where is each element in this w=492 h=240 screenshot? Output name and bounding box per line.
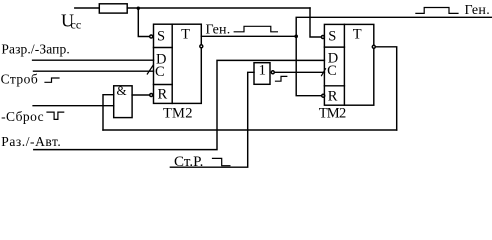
svg-text:C: C (155, 64, 165, 80)
rising edge symbol at D2 output (276, 76, 287, 81)
wire Razr/-Zapr to D of U1 (33, 59, 154, 61)
wire Vcc rail: resistor to corner above FF2 S (127, 7, 310, 9)
wire Strob to C of U1 (34, 70, 154, 72)
svg-text:ТМ2: ТМ2 (319, 105, 346, 121)
wire D2 output to C of U2 (275, 71, 324, 73)
inverted output circle of U2 (372, 45, 375, 48)
pulse symbol at Gen 1 (234, 26, 277, 32)
svg-text:S: S (157, 29, 165, 45)
inverting input circle R of U2 (322, 94, 325, 97)
wire St.R. up to inverter D2 input (170, 72, 254, 167)
svg-text:S: S (328, 29, 336, 45)
node junction dot on Vcc rail (137, 7, 140, 10)
svg-text:Ген.: Ген. (206, 22, 231, 37)
wire feedback branch up to upper input of gate D1 (103, 95, 114, 130)
falling edge symbol at St.R. (213, 158, 230, 165)
svg-text:T: T (353, 26, 362, 42)
svg-text:R: R (328, 88, 338, 104)
inverted output circle of D2 (271, 71, 274, 74)
svg-text:ТМ2: ТМ2 (163, 105, 193, 121)
U2 input column divider (343, 24, 345, 105)
node junction dot Gen net (294, 35, 298, 39)
svg-text:Раз./-Авт.: Раз./-Авт. (1, 134, 61, 149)
U2 S cell divider (324, 46, 344, 48)
svg-text:&: & (116, 83, 126, 98)
svg-text:Ген.: Ген. (465, 3, 490, 18)
wire -Sbros to lower input of gate D1 (33, 105, 114, 107)
dynamic input slash at C of U1 (147, 65, 153, 74)
wire feedback rail to AND gate branch (103, 129, 397, 131)
wire Vcc rail drop to S input of U2 (310, 8, 321, 37)
wire junction up and right to Gen output (296, 17, 492, 36)
svg-text:C: C (327, 63, 337, 79)
wire junction down to S input of U1 (138, 8, 149, 37)
U1 S cell divider (154, 47, 173, 49)
label Ucc (61, 11, 81, 32)
U1 R cell divider (154, 84, 173, 86)
wire junction down to R of U2 (296, 36, 321, 95)
negative pulse symbol at -Sbros (47, 112, 64, 119)
wire U2 output feedback down to rail (376, 47, 397, 130)
svg-text:T: T (181, 26, 190, 42)
wire Ucc to resistor R1 (75, 7, 100, 9)
svg-text:Разр./-Запр.: Разр./-Запр. (1, 42, 69, 57)
dynamic input slash at C of U2 (322, 69, 326, 76)
svg-text:cc: cc (71, 18, 82, 32)
svg-text:Строб: Строб (1, 71, 38, 86)
resistor R1 (99, 4, 127, 13)
U2 R cell divider (324, 85, 344, 87)
svg-text:R: R (157, 87, 167, 103)
inverter D2 body (254, 63, 270, 85)
U1 input column divider (171, 24, 173, 103)
flip-flop U2 TM2 body (324, 24, 373, 105)
svg-text:1: 1 (259, 62, 267, 78)
inverting input circle R of U1 (150, 94, 153, 97)
inverting input circle S of U1 (150, 35, 153, 38)
AND gate D1 body (114, 86, 132, 118)
svg-text:-Сброс: -Сброс (1, 109, 44, 124)
flip-flop U1 TM2 body (154, 24, 202, 103)
inverted output circle of U1 (200, 45, 203, 48)
wire Raz/-Avt up to D of U2 (34, 60, 325, 149)
pulse symbol at Gen 2 (416, 8, 458, 14)
rising edge symbol at Strob (45, 78, 59, 82)
wire D1 output to R of U1 (132, 94, 150, 96)
inverting input circle S of U2 (321, 36, 324, 39)
wire U1 Q output to Gen node (201, 35, 296, 37)
